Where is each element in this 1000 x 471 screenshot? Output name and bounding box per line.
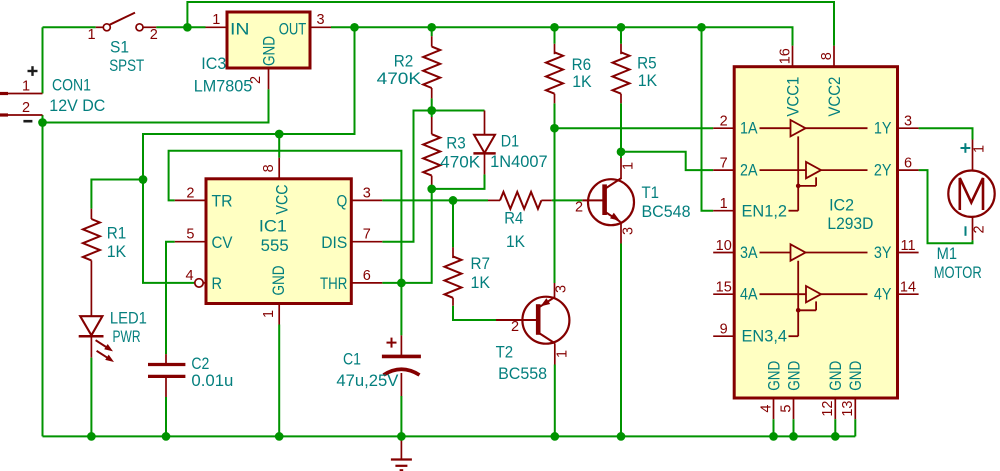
svg-text:IC2: IC2 xyxy=(829,197,854,215)
svg-text:VCC1: VCC1 xyxy=(784,77,802,117)
svg-text:12: 12 xyxy=(820,401,836,417)
svg-text:9: 9 xyxy=(720,322,728,338)
svg-text:3: 3 xyxy=(621,227,637,235)
svg-text:R4: R4 xyxy=(504,209,523,227)
svg-text:R1: R1 xyxy=(107,225,127,243)
svg-text:3A: 3A xyxy=(740,244,758,262)
svg-text:BC548: BC548 xyxy=(642,203,691,221)
svg-text:3Y: 3Y xyxy=(874,244,892,262)
svg-text:R3: R3 xyxy=(446,134,466,152)
svg-text:7: 7 xyxy=(363,227,371,243)
svg-text:13: 13 xyxy=(840,401,856,417)
svg-text:14: 14 xyxy=(900,280,916,296)
svg-text:2: 2 xyxy=(972,225,988,233)
svg-text:47u,25V: 47u,25V xyxy=(336,372,398,390)
svg-text:1: 1 xyxy=(554,350,570,358)
svg-text:DIS: DIS xyxy=(321,234,347,252)
svg-text:1: 1 xyxy=(720,196,728,212)
svg-text:LM7805: LM7805 xyxy=(194,78,252,96)
svg-text:2: 2 xyxy=(720,114,728,130)
svg-text:1N4007: 1N4007 xyxy=(490,153,547,171)
svg-text:CV: CV xyxy=(212,234,233,252)
svg-text:L293D: L293D xyxy=(827,215,873,233)
svg-text:2A: 2A xyxy=(740,162,758,180)
svg-text:R6: R6 xyxy=(572,56,592,74)
svg-text:6: 6 xyxy=(363,268,371,284)
svg-text:2: 2 xyxy=(511,319,519,335)
svg-text:VCC: VCC xyxy=(274,184,292,214)
svg-text:6: 6 xyxy=(904,155,912,171)
svg-text:THR: THR xyxy=(320,275,347,293)
svg-text:4: 4 xyxy=(186,268,194,284)
svg-text:C1: C1 xyxy=(343,351,361,369)
svg-text:1: 1 xyxy=(87,27,95,43)
svg-text:M1: M1 xyxy=(937,245,957,263)
svg-text:3: 3 xyxy=(363,185,371,201)
svg-text:1Y: 1Y xyxy=(874,120,892,138)
svg-text:T2: T2 xyxy=(496,343,513,361)
svg-text:15: 15 xyxy=(716,280,732,296)
svg-text:16: 16 xyxy=(777,48,793,64)
svg-text:IC3: IC3 xyxy=(201,55,226,73)
svg-text:SPST: SPST xyxy=(109,57,144,75)
svg-text:R: R xyxy=(212,275,223,293)
svg-text:R7: R7 xyxy=(471,255,491,273)
svg-text:1: 1 xyxy=(22,79,30,95)
svg-text:1K: 1K xyxy=(638,72,658,90)
svg-text:EN3,4: EN3,4 xyxy=(742,328,788,346)
svg-text:2: 2 xyxy=(22,100,30,116)
svg-text:12V DC: 12V DC xyxy=(49,97,105,115)
svg-text:3: 3 xyxy=(904,114,912,130)
svg-text:1: 1 xyxy=(972,145,988,153)
svg-text:2: 2 xyxy=(186,185,194,201)
svg-text:555: 555 xyxy=(261,237,289,255)
svg-text:GND: GND xyxy=(827,361,845,391)
svg-text:4Y: 4Y xyxy=(874,286,892,304)
svg-text:D1: D1 xyxy=(501,133,519,151)
svg-text:VCC2: VCC2 xyxy=(826,77,844,117)
svg-text:8: 8 xyxy=(261,164,277,172)
svg-text:1K: 1K xyxy=(471,274,491,292)
svg-text:T1: T1 xyxy=(642,184,660,202)
svg-text:GND: GND xyxy=(847,361,865,391)
svg-text:GND: GND xyxy=(261,36,279,66)
svg-text:OUT: OUT xyxy=(279,20,307,38)
svg-text:1: 1 xyxy=(212,12,220,28)
svg-text:470K: 470K xyxy=(377,70,422,88)
svg-text:470K: 470K xyxy=(440,153,480,171)
svg-text:S1: S1 xyxy=(110,39,129,57)
svg-text:10: 10 xyxy=(716,238,732,254)
svg-text:2: 2 xyxy=(575,200,583,216)
svg-text:LED1: LED1 xyxy=(110,309,147,327)
svg-text:5: 5 xyxy=(186,227,194,243)
svg-text:BC558: BC558 xyxy=(498,365,547,383)
svg-text:3: 3 xyxy=(553,285,569,293)
svg-text:1K: 1K xyxy=(572,73,592,91)
svg-text:4A: 4A xyxy=(740,286,758,304)
svg-text:1K: 1K xyxy=(506,233,525,251)
svg-text:1: 1 xyxy=(261,310,277,318)
svg-text:CON1: CON1 xyxy=(52,76,91,94)
svg-text:11: 11 xyxy=(900,238,915,254)
svg-text:IC1: IC1 xyxy=(259,218,287,236)
svg-text:0.01u: 0.01u xyxy=(191,372,233,390)
svg-text:1A: 1A xyxy=(740,120,758,138)
svg-text:R2: R2 xyxy=(394,53,414,71)
svg-text:1: 1 xyxy=(621,162,637,170)
svg-text:5: 5 xyxy=(778,405,794,413)
svg-text:2: 2 xyxy=(150,27,158,43)
svg-text:1K: 1K xyxy=(107,243,127,261)
svg-text:R5: R5 xyxy=(637,54,657,72)
svg-text:PWR: PWR xyxy=(113,328,141,346)
svg-text:2Y: 2Y xyxy=(874,162,892,180)
svg-text:4: 4 xyxy=(758,405,774,413)
svg-text:7: 7 xyxy=(720,155,728,171)
svg-text:GND: GND xyxy=(270,266,288,296)
svg-text:Q: Q xyxy=(337,193,348,211)
svg-text:GND: GND xyxy=(785,361,803,391)
svg-text:GND: GND xyxy=(765,361,783,391)
svg-text:MOTOR: MOTOR xyxy=(934,264,982,282)
svg-text:3: 3 xyxy=(316,12,324,28)
svg-text:C2: C2 xyxy=(191,355,209,373)
svg-text:IN: IN xyxy=(230,20,250,38)
svg-text:EN1,2: EN1,2 xyxy=(742,202,788,220)
svg-text:8: 8 xyxy=(819,52,835,60)
svg-text:TR: TR xyxy=(212,193,233,211)
